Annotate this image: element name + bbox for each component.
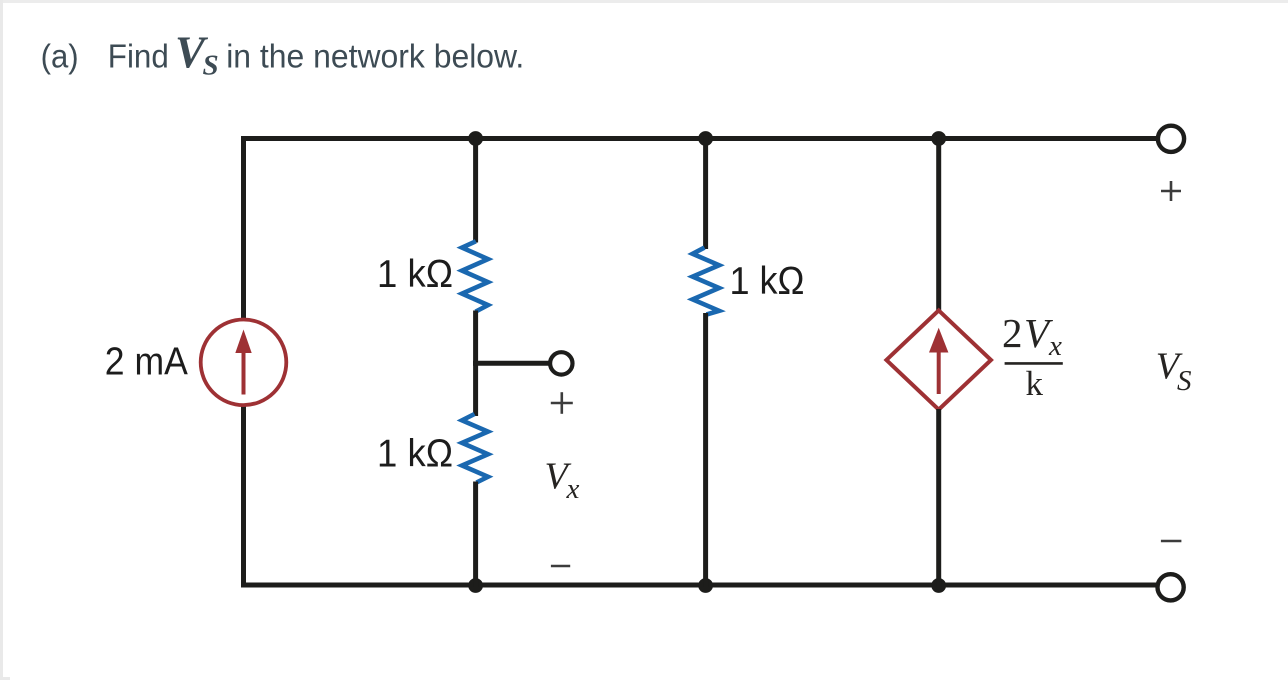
wire: bottom bus from left branch to output terminal	[241, 583, 1158, 588]
wire: branch2 top segment	[703, 136, 708, 249]
page edge bottom-left nick	[0, 677, 10, 680]
wire: branch3 top segment	[936, 136, 941, 311]
wire: Vx stub to terminal	[473, 361, 550, 366]
wire: branch1 bottom segment	[473, 482, 478, 588]
minus sign Vx	[551, 565, 570, 568]
svg-text:2: 2	[1002, 310, 1023, 356]
problem statement: (a) Find VS in the network below.	[41, 27, 525, 81]
svg-text:2 mA: 2 mA	[105, 340, 188, 383]
svg-text:1 kΩ: 1 kΩ	[377, 432, 453, 475]
wire: branch3 bottom segment	[936, 409, 941, 588]
wire: branch1 top segment	[473, 136, 478, 243]
current source I1 2 mA	[201, 320, 287, 406]
plus sign Vx	[551, 392, 573, 414]
node dot top C (x=938)	[931, 131, 946, 146]
svg-text:1 kΩ: 1 kΩ	[730, 260, 805, 303]
dependent current source U1 (diamond)	[886, 310, 991, 409]
svg-text:(a): (a)	[41, 38, 79, 75]
page edge left	[0, 0, 3, 680]
svg-text:k: k	[1026, 364, 1044, 403]
svg-text:Find: Find	[108, 38, 169, 75]
node dot bottom D (x=475)	[468, 578, 483, 593]
page edge top	[0, 0, 1288, 3]
node dot bottom F (x=938)	[931, 578, 946, 593]
resistor R1 1 kOhm (upper left)	[462, 241, 488, 311]
node dot top B (x=705)	[698, 131, 713, 146]
node dot top A (x=475)	[468, 131, 483, 146]
wire: left branch upper segment	[241, 136, 246, 320]
minus sign output	[1161, 540, 1182, 543]
wire: left branch lower segment	[241, 405, 246, 588]
label VS output	[1156, 346, 1192, 397]
plus sign output	[1161, 181, 1181, 201]
svg-text:S: S	[1177, 365, 1192, 397]
svg-text:in the network below.: in the network below.	[226, 38, 524, 75]
wire: top bus from left branch to output terminal	[241, 136, 1159, 141]
node dot bottom E (x=705)	[698, 578, 713, 593]
value label 2Vx/k fraction	[1002, 310, 1063, 403]
label Vx	[545, 455, 580, 505]
svg-text:x: x	[1048, 330, 1062, 362]
svg-text:1 kΩ: 1 kΩ	[377, 253, 453, 296]
terminal bottom-right (open circle)	[1158, 574, 1184, 600]
terminal Vx (open circle)	[550, 352, 572, 374]
svg-text:x: x	[566, 473, 580, 505]
wire: branch2 bottom segment	[703, 313, 708, 588]
svg-text:S: S	[203, 50, 219, 82]
resistor R2 1 kOhm (lower left)	[462, 414, 488, 483]
terminal top-right (open circle)	[1158, 126, 1184, 152]
wire: branch1 middle segment	[473, 311, 478, 417]
resistor R3 1 kOhm (middle)	[693, 248, 720, 315]
